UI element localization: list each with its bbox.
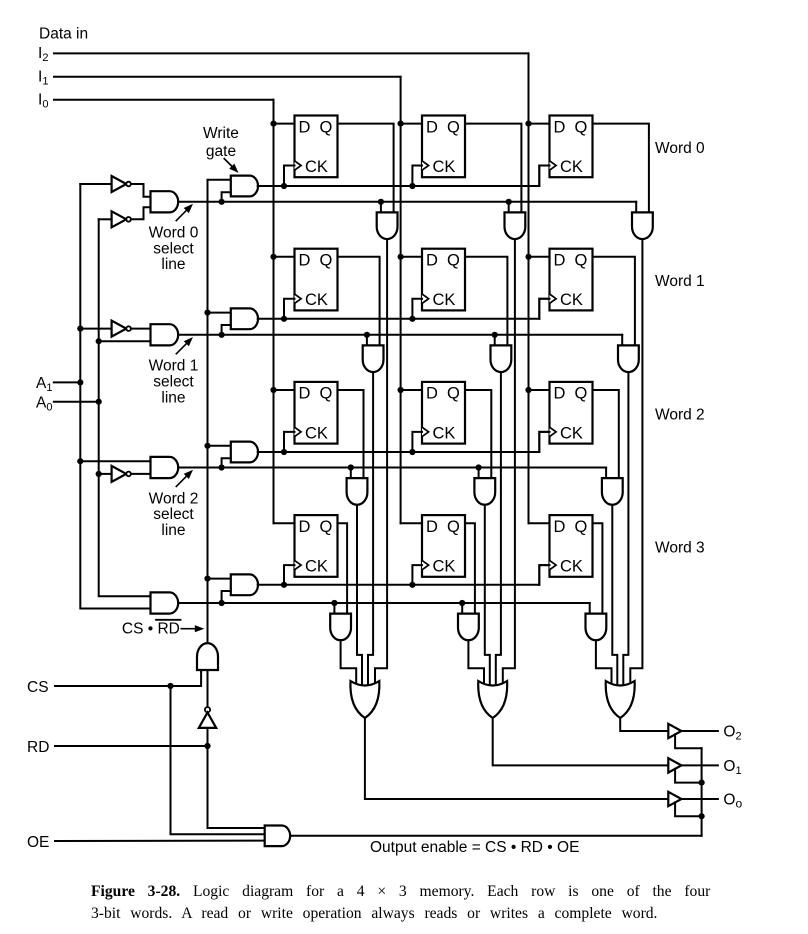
svg-text:CK: CK — [433, 291, 456, 309]
wire A1 — [54, 381, 81, 383]
wire enable stub Oo — [675, 802, 702, 816]
AND gate word 2 decode — [151, 457, 179, 478]
svg-text:gate: gate — [206, 143, 236, 160]
svg-text:Write: Write — [203, 125, 239, 142]
inverter A0 word 0 — [99, 207, 151, 227]
AND gate read word 3 bit 0 — [330, 614, 351, 641]
buffer output Oo — [668, 792, 681, 806]
wire buffer Oo output — [681, 798, 718, 800]
wire A1 to word 2 gate — [80, 460, 150, 462]
wire OR bit 0 to buffer — [365, 718, 668, 799]
svg-text:Q: Q — [575, 518, 588, 536]
buffer output O1 — [668, 758, 681, 772]
wire inverter to AND — [207, 670, 209, 707]
OR gate output bit 1 — [478, 681, 507, 718]
wire Q word 2 bit 0 to read gate — [338, 390, 364, 478]
wire word 2 clock row — [258, 432, 550, 455]
wire I1 — [54, 76, 401, 78]
flip-flop D word 2 bit 0 — [284, 382, 338, 452]
wire output enable to buffers — [292, 835, 702, 837]
wire word 3 clock row — [258, 565, 550, 588]
svg-text:Q: Q — [447, 252, 460, 270]
svg-text:Data in: Data in — [39, 26, 88, 43]
buffer output O2 — [668, 724, 681, 738]
AND gate write word 3 — [222, 574, 258, 603]
wire output enable vertical — [699, 748, 705, 836]
label CS dot RD-bar — [122, 620, 181, 638]
wire word 1 select line — [178, 332, 622, 346]
svg-text:Word 1: Word 1 — [149, 358, 199, 375]
wire word 0 select line — [178, 199, 636, 213]
AND gate read word 3 bit 1 — [458, 614, 479, 641]
svg-text:RD: RD — [27, 739, 49, 756]
svg-text:Word 0: Word 0 — [655, 140, 705, 157]
svg-text:CK: CK — [305, 291, 328, 309]
wire Q word 1 bit 1 to read gate — [465, 257, 507, 346]
AND gate read word 2 bit 1 — [474, 478, 495, 505]
svg-text:CK: CK — [433, 424, 456, 442]
wire read word 1 bit 2 to OR gate — [623, 372, 628, 687]
arrow to word 2 select line — [176, 476, 186, 486]
wire buffer O1 output — [681, 764, 718, 766]
svg-text:select: select — [153, 506, 194, 523]
wire RD to inverter and output enable gate — [208, 728, 265, 828]
wire read word 1 bit 0 to OR gate — [368, 372, 373, 687]
svg-text:Q: Q — [320, 252, 333, 270]
svg-text:Q: Q — [320, 118, 333, 136]
AND gate read word 1 bit 0 — [363, 345, 384, 372]
wire Q word 3 bit 2 to read gate — [593, 523, 603, 613]
svg-text:D: D — [554, 252, 566, 270]
AND gate word 0 decode — [151, 191, 179, 212]
flip-flop D word 2 bit 1 — [412, 382, 465, 452]
arrow CS dot RD-bar to wire — [181, 628, 195, 630]
flip-flop D word 3 bit 0 — [284, 515, 338, 585]
svg-text:line: line — [161, 389, 185, 406]
AND gate word 3 decode — [151, 592, 179, 613]
svg-text:Q: Q — [447, 385, 460, 403]
wire I0 vertical data column 0 — [270, 100, 294, 524]
AND gate read word 2 bit 2 — [602, 478, 623, 505]
wire read word 0 bit 2 to OR gate — [630, 239, 642, 687]
svg-text:Word 0: Word 0 — [149, 225, 199, 242]
wire Q word 1 bit 0 to read gate — [338, 257, 380, 346]
svg-text:D: D — [426, 518, 438, 536]
flip-flop D word 0 bit 2 — [539, 116, 592, 187]
AND gate CS and not RD — [197, 643, 218, 672]
svg-text:D: D — [426, 385, 438, 403]
wire Q word 3 bit 1 to read gate — [465, 523, 475, 613]
flip-flop D word 3 bit 1 — [412, 515, 465, 585]
svg-text:D: D — [426, 252, 438, 270]
inverter A0 word 2 — [99, 466, 151, 482]
wire read word 1 bit 1 to OR gate — [496, 372, 501, 687]
svg-text:D: D — [299, 385, 311, 403]
svg-text:Q: Q — [320, 518, 333, 536]
flip-flop D word 1 bit 0 — [284, 249, 338, 319]
svg-text:Q: Q — [320, 385, 333, 403]
svg-text:D: D — [299, 118, 311, 136]
svg-text:Q: Q — [575, 118, 588, 136]
label Write gate — [203, 125, 239, 160]
wire OR bit 2 to buffer — [620, 718, 668, 731]
wire Q word 2 bit 2 to read gate — [593, 390, 619, 478]
svg-text:line: line — [161, 522, 185, 539]
wire Q word 1 bit 2 to read gate — [593, 257, 635, 346]
wire OE — [55, 840, 265, 842]
label Word 0 select line — [149, 225, 199, 274]
flip-flop D word 2 bit 2 — [539, 382, 592, 452]
wire OR bit 1 to buffer — [493, 718, 669, 765]
wire read word 0 bit 1 to OR gate — [503, 239, 515, 687]
wire word 0 clock row — [258, 166, 550, 190]
wire A0 to word 1 gate — [99, 340, 151, 342]
wire read word 3 bit 2 to OR gate — [596, 640, 612, 687]
AND gate write word 1 — [222, 308, 258, 334]
wire read word 2 bit 2 to OR gate — [612, 505, 617, 687]
wire enable stub O1 — [675, 769, 702, 783]
wire Q word 3 bit 0 to read gate — [338, 523, 348, 613]
AND gate read word 1 bit 1 — [491, 345, 512, 372]
wire buffer O2 output — [681, 730, 718, 732]
wire Q word 0 bit 0 to read gate — [338, 124, 394, 213]
flip-flop D word 0 bit 0 — [284, 116, 338, 187]
svg-text:Q: Q — [447, 118, 460, 136]
flip-flop D word 1 bit 2 — [539, 249, 592, 319]
wire read word 0 bit 0 to OR gate — [375, 239, 387, 687]
svg-text:CK: CK — [433, 558, 456, 576]
OR gate output bit 2 — [606, 681, 635, 718]
wire read word 2 bit 0 to OR gate — [357, 505, 362, 687]
svg-text:CS: CS — [27, 679, 49, 696]
svg-text:Word 2: Word 2 — [149, 490, 199, 507]
flip-flop D word 1 bit 1 — [412, 249, 465, 319]
flip-flop D word 0 bit 1 — [412, 116, 465, 187]
wire A0 bus vertical — [96, 219, 151, 596]
wire CS branch to output enable gate — [171, 686, 265, 834]
flip-flop D word 3 bit 2 — [539, 515, 592, 585]
svg-text:D: D — [299, 518, 311, 536]
inverter A1 word 1 — [80, 321, 150, 337]
label Word 1 select line — [149, 358, 199, 407]
wire read word 3 bit 1 to OR gate — [468, 640, 484, 687]
svg-text:Output enable = CS • RD • OE: Output enable = CS • RD • OE — [370, 839, 579, 856]
svg-text:D: D — [554, 118, 566, 136]
wire RD — [55, 743, 211, 749]
svg-text:CS • RD: CS • RD — [122, 621, 180, 638]
label Word 2 select line — [149, 490, 199, 539]
wire I2 vertical data column 2 — [525, 53, 549, 523]
wire CS — [55, 670, 201, 689]
wire word 1 clock row — [258, 299, 550, 322]
AND gate write word 0 — [222, 176, 258, 202]
inverter RD — [199, 707, 216, 728]
svg-text:CK: CK — [305, 158, 328, 176]
svg-text:D: D — [426, 118, 438, 136]
svg-text:CK: CK — [433, 158, 456, 176]
AND gate read word 1 bit 2 — [618, 345, 639, 372]
arrow to word 1 select line — [176, 344, 186, 354]
svg-text:D: D — [554, 518, 566, 536]
caption figure text — [91, 883, 711, 922]
svg-text:line: line — [161, 256, 185, 273]
svg-text:Word 1: Word 1 — [655, 273, 705, 290]
svg-text:CK: CK — [560, 424, 583, 442]
wire I2 — [54, 52, 529, 54]
arrow to word 0 select line — [176, 211, 186, 221]
wire A1 bus vertical — [77, 184, 150, 609]
AND gate output enable — [265, 826, 290, 847]
AND gate word 1 decode — [151, 324, 179, 345]
svg-text:CK: CK — [560, 158, 583, 176]
arrow to write gate — [224, 159, 232, 167]
svg-text:Q: Q — [447, 518, 460, 536]
wire Q word 0 bit 2 to read gate — [593, 124, 649, 213]
svg-text:select: select — [153, 374, 194, 391]
wire Q word 0 bit 1 to read gate — [465, 124, 521, 213]
wire Q word 2 bit 1 to read gate — [465, 390, 491, 478]
wire read word 3 bit 0 to OR gate — [341, 640, 357, 687]
svg-text:Q: Q — [575, 385, 588, 403]
wire I1 vertical data column 1 — [398, 77, 423, 523]
svg-text:CK: CK — [305, 424, 328, 442]
svg-text:Q: Q — [575, 252, 588, 270]
wire CS AND NOT-RD vertical net — [204, 180, 230, 643]
svg-text:Figure 3-28. Logic diagram fo: Figure 3-28. Logic diagram for a 4 × 3 m… — [91, 883, 711, 900]
svg-text:CK: CK — [305, 558, 328, 576]
AND gate read word 3 bit 2 — [586, 614, 607, 641]
svg-text:CK: CK — [560, 558, 583, 576]
svg-text:3-bit words. A read or write: 3-bit words. A read or write operation a… — [91, 905, 657, 922]
wire word 2 select line — [178, 464, 606, 478]
wire I0 — [54, 99, 274, 101]
AND gate read word 0 bit 1 — [505, 212, 526, 239]
AND gate read word 2 bit 0 — [347, 478, 368, 505]
svg-text:D: D — [299, 252, 311, 270]
svg-text:OE: OE — [27, 834, 49, 851]
AND gate read word 0 bit 0 — [377, 212, 398, 239]
svg-text:D: D — [554, 385, 566, 403]
svg-text:Word 2: Word 2 — [655, 406, 705, 423]
wire A0 — [54, 401, 99, 403]
wire word 3 select line — [178, 600, 590, 614]
svg-text:CK: CK — [560, 291, 583, 309]
wire read word 2 bit 1 to OR gate — [485, 505, 490, 687]
svg-text:select: select — [153, 240, 194, 257]
AND gate read word 0 bit 2 — [632, 212, 653, 239]
OR gate output bit 0 — [350, 681, 379, 718]
AND gate write word 2 — [222, 442, 258, 468]
inverter A1 word 0 — [80, 176, 150, 197]
wire enable stub O2 — [675, 734, 702, 748]
svg-text:Word 3: Word 3 — [655, 540, 705, 557]
